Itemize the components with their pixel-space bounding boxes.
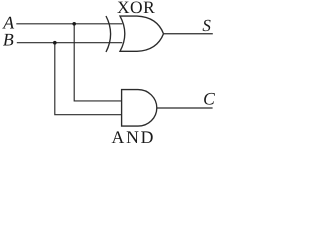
svg-text:S: S [202, 16, 211, 35]
svg-text:B: B [3, 29, 14, 49]
svg-text:C: C [203, 89, 215, 109]
svg-text:AND: AND [112, 127, 156, 146]
svg-text:XOR: XOR [117, 0, 155, 17]
